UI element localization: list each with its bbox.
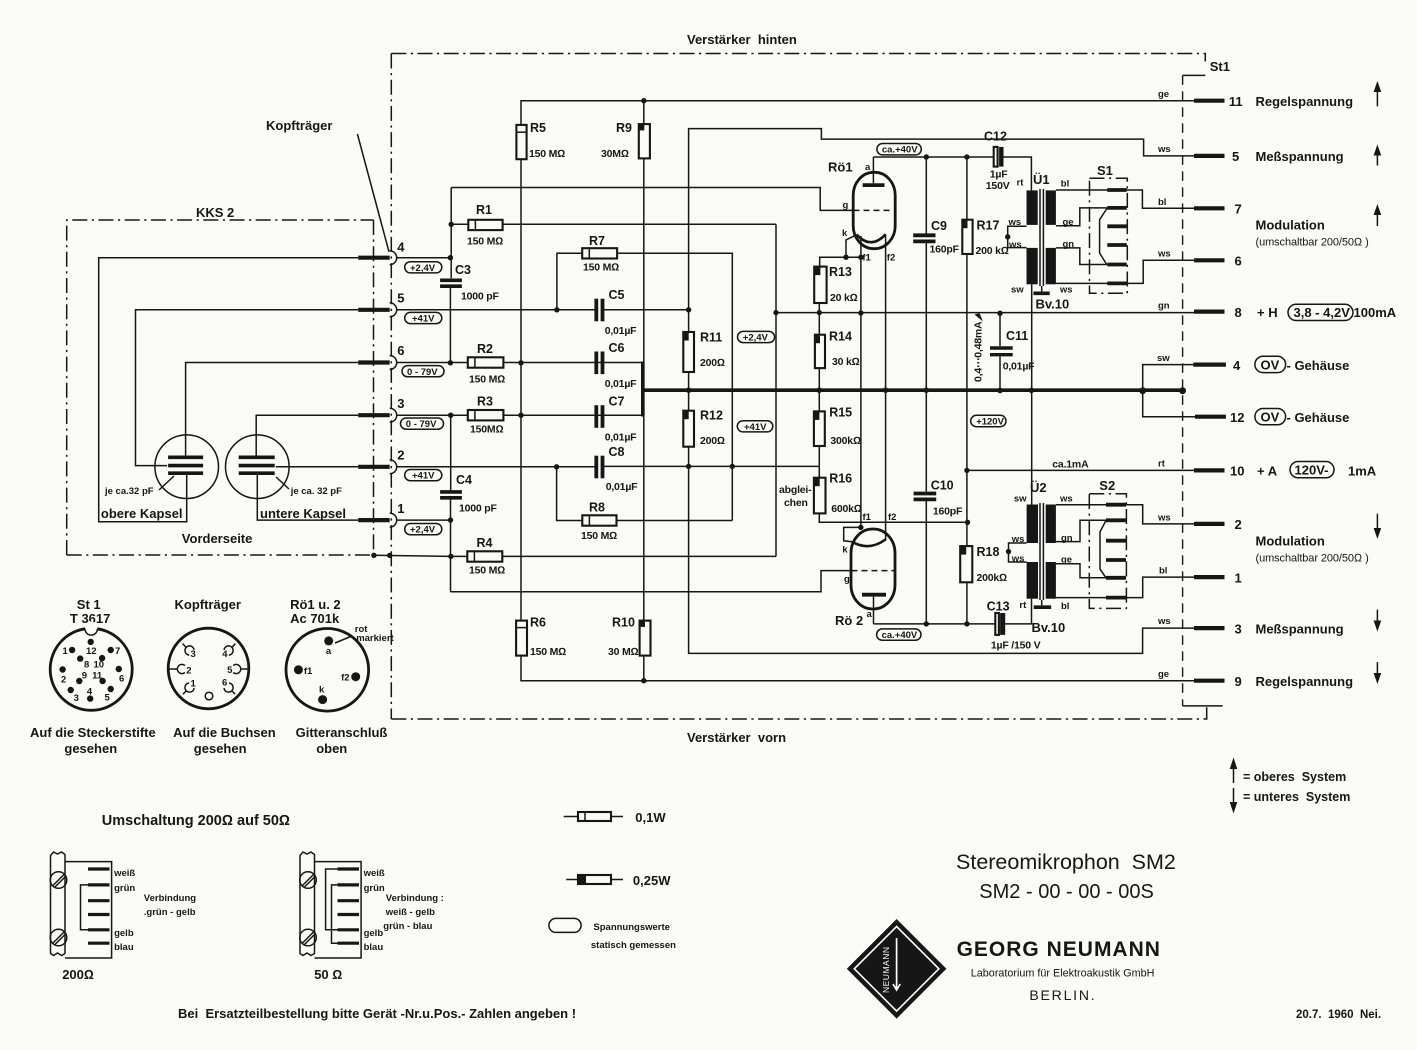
- wire pin4 jog from 0V rail: [1143, 365, 1194, 391]
- label untere Kapsel: [260, 506, 346, 521]
- resistor R12 200R (vertical, 0.25W): [683, 409, 725, 448]
- svg-text:12: 12: [1230, 410, 1244, 425]
- svg-text:150 MΩ: 150 MΩ: [530, 646, 566, 658]
- svg-text:1µF /150 V: 1µF /150 V: [991, 640, 1041, 652]
- svg-text:6: 6: [397, 343, 404, 358]
- svg-text:150 MΩ: 150 MΩ: [581, 530, 617, 542]
- wire R10 bottom lead: [643, 656, 645, 681]
- connector diagram St1 T3617: [30, 597, 156, 756]
- svg-text:1mA: 1mA: [1348, 464, 1377, 479]
- wire pin6 to obere Kapsel top plate: [186, 363, 359, 457]
- svg-text:R11: R11: [700, 331, 722, 345]
- svg-text:Gitteranschluß: Gitteranschluß: [296, 725, 388, 740]
- resistor R13 20k (vertical, 0.25W): [814, 265, 857, 304]
- wire R4 row to +H riser: [451, 555, 776, 557]
- svg-text:5: 5: [1232, 149, 1239, 164]
- wire pin12 jog from 0V rail: [1143, 391, 1195, 417]
- voltage label +41V (pin5): [405, 312, 442, 324]
- wire C5 output to Mess node: [604, 309, 689, 311]
- wire grid line Roe2 (+2,4V line): [451, 571, 852, 592]
- svg-text:Verbindung :: Verbindung :: [386, 893, 444, 904]
- svg-text:C4: C4: [456, 473, 472, 487]
- svg-text:BERLIN.: BERLIN.: [1029, 987, 1096, 1003]
- svg-text:150 MΩ: 150 MΩ: [469, 565, 505, 577]
- svg-text:20.7. 1960 Nei.: 20.7. 1960 Nei.: [1296, 1009, 1381, 1021]
- svg-text:3: 3: [1235, 622, 1242, 637]
- label Verbindung weiss-gelb gruen-blau: [383, 893, 444, 932]
- svg-text:C6: C6: [609, 341, 625, 355]
- transformer U1 ws center-tap jog: [1005, 226, 1027, 247]
- voltage label +41V (pin2): [405, 470, 442, 482]
- svg-text:ws: ws: [1008, 217, 1022, 228]
- svg-text:ws: ws: [1157, 144, 1171, 155]
- svg-text:30MΩ: 30MΩ: [601, 148, 629, 160]
- terminal 8 +H heater: [1158, 301, 1397, 321]
- svg-text:Vorderseite: Vorderseite: [182, 531, 253, 546]
- svg-text:bl: bl: [1158, 197, 1166, 208]
- svg-text:30 kΩ: 30 kΩ: [832, 356, 860, 368]
- svg-text:NEUMANN: NEUMANN: [881, 947, 891, 993]
- junction dot f1 to k-stub Roe2: [858, 525, 863, 530]
- svg-text:rt: rt: [1019, 600, 1027, 611]
- junction dots input chain x450: [448, 222, 454, 560]
- svg-text:ca.1mA: ca.1mA: [1052, 459, 1089, 471]
- svg-text:a: a: [867, 609, 873, 620]
- connector pin 4 (bar and arc): [358, 240, 405, 265]
- svg-text:C8: C8: [609, 445, 625, 459]
- logo Neumann diamond: [847, 919, 947, 1019]
- svg-text:150 MΩ: 150 MΩ: [583, 262, 619, 274]
- svg-text:1: 1: [63, 646, 69, 657]
- svg-text:ge: ge: [1158, 89, 1169, 100]
- svg-text:R9: R9: [616, 121, 632, 135]
- junction dot R9 top: [641, 98, 646, 103]
- svg-text:150 MΩ: 150 MΩ: [529, 148, 565, 160]
- wire pin6 row R2 to C6 and bus: [397, 362, 643, 364]
- svg-text:30 MΩ: 30 MΩ: [608, 646, 639, 658]
- wire U2 ge tap to S2 contact5: [1056, 564, 1106, 578]
- wire pin3 to untere Kapsel top plate: [256, 415, 358, 456]
- svg-text:0,4⋯0,48mA: 0,4⋯0,48mA: [973, 321, 985, 382]
- svg-text:(umschaltbar 200/50Ω ): (umschaltbar 200/50Ω ): [1256, 237, 1369, 249]
- wire pin2 row to C8: [397, 466, 595, 468]
- resistor R18 200k (vertical, 0.25W): [960, 470, 1007, 624]
- svg-text:0,01µF: 0,01µF: [606, 481, 638, 493]
- svg-text:+41V: +41V: [744, 422, 767, 433]
- resistor R4 150M (horizontal, 0.1W): [467, 536, 505, 577]
- wire U2 bl bottom to S2 contact6 and pin1: [1056, 577, 1194, 598]
- svg-text:R12: R12: [700, 409, 723, 423]
- svg-text:Bei Ersatzteilbestellung bitt: Bei Ersatzteilbestellung bitte Gerät -Nr…: [178, 1006, 576, 1021]
- svg-text:200Ω: 200Ω: [700, 357, 725, 369]
- svg-text:grün - blau: grün - blau: [383, 921, 432, 932]
- junction dots Mess node and netX row: [686, 307, 735, 469]
- terminal 5 Messspannung: [1157, 144, 1381, 166]
- label St1: [1210, 59, 1230, 74]
- voltage label 0-79V (pin6): [402, 366, 444, 378]
- svg-text:weiß: weiß: [113, 868, 135, 879]
- svg-text:g: g: [844, 574, 850, 585]
- svg-text:ge: ge: [1158, 669, 1169, 680]
- transformer U2 ws center-tap jog: [1006, 543, 1027, 562]
- svg-text:rt: rt: [1017, 178, 1025, 189]
- svg-text:11: 11: [1229, 94, 1243, 109]
- wire C9/C10 riser x926: [925, 157, 927, 624]
- svg-text:oben: oben: [316, 741, 347, 756]
- svg-text:5: 5: [397, 291, 404, 306]
- wire R1 row (pin4 node to +H riser): [451, 223, 776, 225]
- junction dots +H rail: [773, 310, 1002, 316]
- svg-text:blau: blau: [364, 942, 384, 953]
- wire Regelspannung lower row (pin9 line): [521, 656, 1194, 681]
- tube Roe2 AC701: [835, 512, 896, 628]
- svg-text:gelb: gelb: [364, 928, 384, 939]
- capacitor C10 160pF (horizontal plates): [914, 479, 963, 518]
- labels U2 wire colors: [1011, 494, 1073, 613]
- svg-text:Kopfträger: Kopfträger: [266, 118, 332, 133]
- wire C3 bottom to pin6 row: [449, 288, 451, 363]
- voltage label +120V: [971, 415, 1006, 427]
- junction dots on KKS2 bottom edge wire: [371, 553, 392, 559]
- svg-text:ws: ws: [1011, 554, 1025, 565]
- svg-text:ca.+40V: ca.+40V: [882, 630, 918, 641]
- svg-text:(umschaltbar 200/50Ω ): (umschaltbar 200/50Ω ): [1256, 553, 1369, 565]
- svg-text:2: 2: [61, 675, 66, 686]
- terminal 11 Regelspannung: [1158, 81, 1381, 109]
- voltage label +2,4V (pin1): [405, 524, 442, 536]
- svg-text:= unteres System: = unteres System: [1243, 790, 1350, 804]
- svg-text:9: 9: [1235, 674, 1242, 689]
- svg-text:150 MΩ: 150 MΩ: [467, 236, 503, 248]
- date 20.7.1960 Nei: [1296, 1009, 1381, 1021]
- svg-text:rt: rt: [1158, 459, 1166, 470]
- svg-text:C3: C3: [455, 263, 471, 277]
- resistor R5 150M (vertical, 0.1W): [516, 121, 565, 160]
- svg-text:ws: ws: [1157, 513, 1171, 524]
- connector diagram Roe1 u.2 Ac701k socket: [286, 597, 395, 756]
- svg-text:7: 7: [1235, 202, 1242, 217]
- svg-text:C5: C5: [609, 288, 625, 302]
- svg-text:4: 4: [222, 649, 228, 660]
- voltage label 0-79V (pin3): [401, 418, 444, 430]
- label KKS 2: [196, 205, 234, 220]
- wire C4 bottom chain to pin1 and R4: [450, 498, 452, 592]
- capacitor C13 1uF/150V (vertical plates, one solid): [987, 600, 1041, 652]
- frame KKS2 box (dash-dot): [67, 220, 374, 555]
- wire C8 output row to R15/R16 node: [604, 465, 819, 467]
- svg-text:Ac 701k: Ac 701k: [290, 611, 340, 626]
- legend 0,25W resistor symbol: [566, 873, 671, 888]
- svg-text:St 1: St 1: [77, 597, 101, 612]
- svg-text:obere Kapsel: obere Kapsel: [101, 506, 183, 521]
- svg-text:1000 pF: 1000 pF: [461, 291, 499, 303]
- svg-text:Auf die Steckerstifte: Auf die Steckerstifte: [30, 725, 156, 740]
- wire U2 ws top to S2 contact1 and pin2: [1056, 505, 1194, 524]
- connector pin 6 (bar and arc): [358, 343, 404, 369]
- label ca.1mA: [1052, 459, 1089, 471]
- resistor R3 150M (horizontal, 0.1W): [468, 395, 504, 436]
- wire U1 gn tap to S1 contact5: [1056, 248, 1107, 265]
- svg-text:2: 2: [397, 448, 404, 463]
- svg-text:10: 10: [94, 660, 105, 671]
- svg-text:160pF: 160pF: [933, 506, 963, 518]
- junction dot +A tap: [964, 468, 969, 473]
- svg-text:R10: R10: [612, 616, 635, 630]
- heavy 0V bus vertical (C6/C7 junction): [641, 362, 645, 417]
- terminal 9 Regelspannung down: [1158, 662, 1381, 689]
- wire Roe2 anode row to C13 and transformer rt: [874, 599, 1032, 624]
- svg-text:20 kΩ: 20 kΩ: [830, 292, 858, 304]
- svg-text:3: 3: [191, 649, 196, 660]
- svg-text:ws: ws: [1157, 249, 1171, 260]
- svg-text:statisch gemessen: statisch gemessen: [591, 940, 676, 951]
- transformer U2 secondary windings: [1046, 505, 1056, 599]
- svg-text:weiß: weiß: [363, 868, 385, 879]
- capacitor C4 1000pF (horizontal plates): [440, 473, 497, 515]
- wire riser x450 pin3 to C4: [450, 415, 452, 491]
- svg-text:12: 12: [86, 646, 97, 657]
- svg-text:Ü1: Ü1: [1033, 172, 1050, 187]
- svg-text:+2,4V: +2,4V: [410, 525, 436, 536]
- junction dot R10 bottom (Regelspannung): [641, 678, 646, 683]
- svg-text:Verstärker vorn: Verstärker vorn: [687, 730, 786, 745]
- resistor R16 600k abgleichen (vertical, 0.25W): [814, 466, 968, 523]
- label je ca.32pF (left) with pointer: [104, 476, 174, 497]
- svg-text:8: 8: [1235, 305, 1242, 320]
- wire k-row Roe1 (R13 top to f1): [820, 257, 861, 266]
- label abgleichen: [779, 484, 812, 509]
- svg-text:.grün - gelb: .grün - gelb: [144, 907, 196, 918]
- svg-text:bl: bl: [1061, 179, 1069, 190]
- terminal strip 50R: [300, 852, 385, 982]
- svg-text:Meßspannung: Meßspannung: [1256, 149, 1344, 164]
- svg-text:3: 3: [74, 693, 79, 704]
- svg-text:R17: R17: [977, 219, 1000, 233]
- svg-text:Bv.10: Bv.10: [1032, 620, 1066, 635]
- svg-text:Spannungswerte: Spannungswerte: [593, 922, 670, 933]
- terminal 4 OV-Gehaeuse: [1157, 353, 1349, 373]
- svg-text:R7: R7: [589, 234, 605, 248]
- title Stereomikrophon SM2: [956, 850, 1176, 874]
- connector pin 5 (bar and arc): [358, 291, 404, 317]
- svg-text:Regelspannung: Regelspannung: [1256, 94, 1354, 109]
- svg-text:f1: f1: [862, 253, 871, 264]
- svg-text:50 Ω: 50 Ω: [314, 967, 342, 982]
- capacitor C9 160pF (horizontal plates): [913, 219, 959, 256]
- wire Messspannung upper (pin5 line with jogs): [689, 129, 1194, 310]
- svg-text:2: 2: [1235, 517, 1242, 532]
- title Laboratorium fuer Elektroakustik GmbH: [971, 968, 1155, 980]
- svg-text:ws: ws: [1059, 285, 1073, 296]
- svg-text:f2: f2: [887, 253, 895, 264]
- transformer U1 secondary windings: [1046, 190, 1056, 284]
- svg-text:ca.+40V: ca.+40V: [882, 145, 918, 156]
- label obere Kapsel: [101, 506, 183, 521]
- svg-text:GEORG NEUMANN: GEORG NEUMANN: [957, 938, 1161, 961]
- label Verstaerker vorn: [687, 730, 786, 745]
- svg-text:ws: ws: [1011, 534, 1025, 545]
- svg-text:5: 5: [227, 665, 233, 676]
- svg-text:0 - 79V: 0 - 79V: [406, 419, 437, 430]
- svg-text:sw: sw: [1157, 353, 1170, 364]
- svg-text:1: 1: [191, 679, 197, 690]
- label je ca.32pF (right) with pointer: [276, 477, 342, 497]
- junction dot R16 row to R18 riser: [965, 520, 970, 525]
- capacitor C7 0.01uF (vertical plates): [596, 395, 637, 444]
- svg-text:6: 6: [222, 678, 227, 689]
- svg-text:St1: St1: [1210, 59, 1230, 74]
- svg-text:9: 9: [82, 671, 87, 682]
- wire U1 bl to S1 contact1 and pin7: [1056, 190, 1194, 208]
- svg-text:Rö1 u. 2: Rö1 u. 2: [290, 597, 341, 612]
- svg-text:5: 5: [105, 693, 111, 704]
- connector pin 1 (bar and arc): [358, 501, 404, 527]
- svg-text:Bv.10: Bv.10: [1036, 297, 1070, 312]
- svg-text:R14: R14: [829, 330, 852, 344]
- label Vorderseite: [182, 531, 253, 546]
- title SM2-00-00-00S: [979, 881, 1154, 903]
- label Verbindung gruen-gelb: [144, 893, 196, 918]
- svg-text:4: 4: [1233, 358, 1241, 373]
- terminal 1: [1159, 566, 1242, 586]
- tube Roe1 AC701: [828, 157, 895, 264]
- svg-text:11: 11: [92, 671, 103, 682]
- capacitor C5 0.01uF (vertical plates): [596, 288, 637, 337]
- legend Spannungswerte oval: [549, 918, 676, 951]
- svg-text:4: 4: [397, 240, 405, 255]
- legend unteres System arrow: [1230, 788, 1351, 814]
- svg-text:Verstärker hinten: Verstärker hinten: [687, 32, 797, 47]
- terminal 2 Modulation down: [1157, 513, 1381, 565]
- wire U1 ge tap to S1 contact2: [1056, 208, 1107, 226]
- wire R8 right to netX riser: [617, 520, 733, 522]
- wire pin1 arc to C4 node: [397, 519, 451, 521]
- svg-text:7: 7: [115, 646, 120, 657]
- wire Roe1 anode row to transformer rt: [873, 157, 1031, 190]
- wire U1 ws bottom to S1 contact6 and pin6: [1056, 260, 1194, 283]
- wire +A row to pin10: [967, 469, 1194, 471]
- svg-text:200 kΩ: 200 kΩ: [976, 245, 1009, 257]
- wire Mess riser to lower Mess row (pin3 output): [689, 310, 1194, 654]
- junction dots 0V rail: [686, 387, 1186, 394]
- wire pin2 to untere Kapsel middle plate: [276, 466, 358, 468]
- wire pin1 to untere Kapsel bottom plate: [257, 475, 358, 521]
- resistor R2 150M (horizontal, 0.1W): [468, 342, 505, 386]
- resistor R17 200k (vertical, 0.25W): [962, 157, 1008, 470]
- svg-text:R6: R6: [530, 616, 546, 630]
- wire KKS2 corner to R4 junction: [374, 555, 451, 556]
- svg-text:100mA: 100mA: [1354, 305, 1397, 320]
- capsule untere Kapsel (circle with 3 plates): [225, 435, 289, 499]
- svg-text:3: 3: [397, 396, 404, 411]
- svg-text:SM2 - 00 - 00 - 00S: SM2 - 00 - 00 - 00S: [979, 881, 1154, 903]
- svg-text:C11: C11: [1006, 329, 1028, 343]
- terminal 10 +A 120V: [1158, 459, 1377, 479]
- svg-text:Modulation: Modulation: [1256, 534, 1325, 549]
- svg-text:je ca. 32 pF: je ca. 32 pF: [290, 486, 342, 497]
- svg-text:S2: S2: [1099, 478, 1115, 493]
- svg-text:0 - 79V: 0 - 79V: [407, 367, 438, 378]
- svg-text:Meßspannung: Meßspannung: [1256, 622, 1344, 637]
- voltage label +2,4V (mid): [738, 331, 775, 343]
- junction dots R2/R3 right on R5R6 riser: [518, 360, 523, 418]
- svg-text:blau: blau: [114, 942, 134, 953]
- terminal 3 Messspannung down: [1157, 610, 1381, 637]
- svg-text:= oberes System: = oberes System: [1243, 770, 1346, 784]
- svg-text:+41V: +41V: [412, 314, 435, 325]
- wire R5-R6 riser x521: [520, 159, 522, 620]
- svg-text:10: 10: [1230, 464, 1244, 479]
- svg-text:sw: sw: [1014, 494, 1027, 505]
- connector diagram Kopftraeger socket: [168, 597, 276, 756]
- svg-text:150 MΩ: 150 MΩ: [469, 374, 505, 386]
- connector St1 bracket line (dashed): [1183, 75, 1223, 706]
- svg-text:- Gehäuse: - Gehäuse: [1287, 358, 1350, 373]
- svg-text:150V: 150V: [986, 180, 1010, 192]
- svg-text:ws: ws: [1157, 616, 1171, 627]
- connector pin 3 (bar and arc): [358, 396, 404, 422]
- frame Verstaerker boundary (dash-dot): [391, 54, 1206, 720]
- label Verstaerker hinten: [687, 32, 797, 47]
- wire pin5 row to C5: [397, 309, 595, 311]
- svg-text:f1: f1: [863, 512, 872, 523]
- svg-text:R3: R3: [477, 395, 493, 409]
- svg-text:gelb: gelb: [114, 928, 134, 939]
- svg-text:KKS 2: KKS 2: [196, 205, 234, 220]
- svg-text:C9: C9: [931, 219, 947, 233]
- capacitor C3 1000pF (horizontal plates): [440, 263, 499, 303]
- svg-text:4: 4: [87, 687, 93, 698]
- wire R7 left elbow down to pin5 row: [557, 253, 582, 309]
- svg-text:ws: ws: [1008, 240, 1022, 251]
- resistor R7 150M (horizontal, 0.1W): [582, 234, 619, 274]
- transformer U1 sw lead to 0V rail: [1031, 284, 1033, 390]
- terminal 7 Modulation: [1158, 197, 1381, 249]
- wire f1 line (heater +): [860, 236, 862, 527]
- connector pin 2 (bar and arc): [358, 448, 404, 474]
- title GEORG NEUMANN: [957, 938, 1161, 961]
- svg-text:200Ω: 200Ω: [700, 435, 725, 447]
- wire R7 right to netX riser: [617, 252, 732, 255]
- svg-text:+2,4V: +2,4V: [743, 333, 769, 344]
- wire +H rail (pin8 line): [776, 312, 1194, 314]
- svg-text:C12: C12: [984, 130, 1007, 144]
- svg-text:je ca.32 pF: je ca.32 pF: [104, 486, 154, 497]
- transformer U2 sw lead to 0V rail: [1031, 390, 1033, 504]
- svg-text:1µF: 1µF: [990, 169, 1008, 181]
- resistor R15 300k (vertical, 0.25W): [814, 390, 861, 466]
- resistor R11 200R (vertical, 0.25W): [683, 331, 725, 373]
- svg-text:bl: bl: [1159, 566, 1167, 577]
- svg-text:0,01µF: 0,01µF: [1003, 361, 1035, 373]
- svg-text:Auf die Buchsen: Auf die Buchsen: [173, 725, 276, 740]
- svg-text:Verbindung: Verbindung: [144, 893, 196, 904]
- svg-text:R4: R4: [477, 536, 493, 550]
- svg-text:R15: R15: [829, 406, 852, 420]
- svg-text:0,25W: 0,25W: [633, 873, 671, 888]
- legend oberes System arrow: [1230, 758, 1346, 785]
- wire Roe1 grid line from input node: [451, 188, 853, 211]
- svg-text:8: 8: [84, 660, 89, 671]
- resistor R10 30M (vertical, 0.25W black): [608, 616, 651, 659]
- svg-text:R2: R2: [477, 342, 493, 356]
- svg-text:k: k: [842, 228, 848, 239]
- wire pin3 row R3 to C7 and bus: [397, 414, 643, 416]
- voltage label +2,4V (pin4): [405, 262, 442, 274]
- wire +H riser (R1 right / R4 right): [775, 224, 777, 556]
- svg-text:OV: OV: [1261, 410, 1280, 425]
- svg-text:Kopfträger: Kopfträger: [175, 597, 241, 612]
